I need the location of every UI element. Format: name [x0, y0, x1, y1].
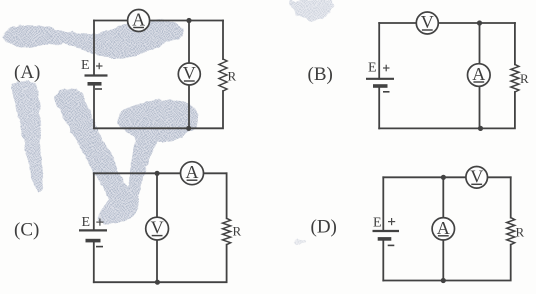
svg-text:V: V — [151, 218, 164, 238]
wire: D middle branch upper — [442, 177, 444, 217]
svg-text:R: R — [520, 71, 529, 86]
battery E (circuit B): short negative plate — [373, 84, 388, 88]
node: D bottom junction — [441, 278, 446, 283]
resistor R (circuit A) — [219, 59, 227, 91]
wire: A middle branch lower — [188, 85, 190, 128]
resistor R (circuit C) — [223, 218, 231, 244]
wire: B middle branch upper — [479, 23, 481, 64]
ammeter A (circuit C) — [181, 162, 204, 185]
ammeter A (circuit D) — [432, 218, 454, 240]
voltmeter V (circuit B) — [416, 12, 438, 34]
wire: A bottom-left segment — [94, 127, 189, 129]
wire: D right side (to resistor) — [510, 177, 512, 217]
wire: B top-right segment — [438, 22, 515, 24]
wire: B left side lower — [378, 86, 380, 128]
ammeter A (circuit B) — [468, 64, 491, 87]
background watermark smudges (decorative) — [2, 0, 333, 244]
svg-text:V: V — [183, 63, 196, 83]
label + (circuit B) — [383, 65, 390, 72]
svg-text:E: E — [368, 61, 377, 76]
voltmeter V (circuit C) — [146, 217, 169, 240]
svg-text:V: V — [421, 12, 434, 32]
label - (circuit C) — [96, 246, 103, 248]
wire: B bottom-left segment — [379, 127, 479, 129]
label - (circuit D) — [388, 244, 395, 246]
label + (circuit C) — [96, 219, 103, 226]
svg-text:(A): (A) — [14, 62, 40, 83]
wire: C right side (to resistor) — [226, 173, 228, 218]
wire: D top-right segment — [488, 176, 511, 178]
svg-text:R: R — [516, 225, 525, 240]
wire: A right side (to resistor) — [222, 21, 224, 60]
svg-text:E: E — [81, 58, 90, 73]
battery E (circuit D): long positive plate — [373, 230, 400, 232]
svg-text:(C): (C) — [14, 220, 39, 241]
svg-text:E: E — [373, 215, 382, 230]
wire: A top-right segment — [150, 20, 223, 22]
voltmeter V (circuit A) — [178, 63, 200, 85]
svg-text:R: R — [233, 224, 242, 239]
svg-text:A: A — [437, 218, 450, 238]
node: C top junction — [155, 171, 160, 176]
battery E (circuit C): long positive plate — [79, 229, 107, 231]
wire: D left side lower — [382, 239, 384, 281]
wire: A top-left segment — [94, 20, 128, 22]
battery E (circuit B): long positive plate — [366, 78, 394, 80]
wire: C middle branch upper — [156, 173, 158, 217]
wire: C left side upper — [93, 173, 95, 230]
wire: B right side (to resistor) — [514, 23, 516, 64]
svg-text:R: R — [228, 69, 237, 84]
wire: A left side lower — [93, 84, 95, 129]
node: A bottom junction — [186, 126, 191, 131]
node: B top junction — [477, 20, 482, 25]
label + (circuit A) — [96, 63, 103, 69]
wire: C top-left segment — [94, 172, 181, 174]
wire: D top-left segment — [383, 176, 466, 178]
svg-text:E: E — [82, 215, 91, 230]
label - (circuit B) — [383, 91, 390, 93]
label + (circuit D) — [388, 218, 395, 225]
node: A top junction — [186, 18, 191, 23]
resistor R (circuit B) — [511, 64, 519, 92]
battery E (circuit C): short negative plate — [86, 239, 101, 243]
svg-text:(B): (B) — [308, 64, 333, 85]
ammeter A (circuit A) — [128, 10, 150, 32]
wire: A left side upper — [93, 21, 95, 76]
label - (circuit A) — [95, 88, 102, 90]
svg-text:(D): (D) — [311, 216, 337, 237]
battery E (circuit A): long positive plate — [85, 74, 108, 76]
wire: B top-left segment — [379, 22, 416, 24]
node: C bottom junction — [155, 280, 160, 285]
battery E (circuit D): short negative plate — [378, 237, 392, 241]
svg-text:A: A — [186, 162, 199, 182]
wire: B middle branch lower — [479, 86, 481, 128]
svg-text:V: V — [470, 166, 483, 186]
wire: D bottom-left segment — [383, 280, 443, 282]
battery E (circuit A): short negative plate — [88, 82, 102, 86]
node: B bottom junction — [478, 126, 483, 131]
svg-text:A: A — [472, 64, 485, 84]
wire: C top-right segment — [204, 172, 227, 174]
wire: C left side lower — [93, 241, 95, 283]
svg-text:A: A — [132, 10, 145, 30]
wire: D right side (from resistor) — [443, 245, 510, 281]
resistor R (circuit D) — [507, 218, 515, 245]
wire: A middle branch upper — [188, 21, 190, 64]
wire: D middle branch lower — [442, 240, 444, 281]
voltmeter V (circuit D) — [466, 166, 488, 188]
wire: C bottom-left segment — [94, 281, 157, 283]
node: D top junction — [441, 175, 446, 180]
wire: B right side (from resistor) — [480, 92, 515, 128]
wire: C middle branch lower — [156, 240, 158, 282]
wire: B left side upper — [378, 23, 380, 79]
wire: D left side upper — [382, 177, 384, 231]
wire: C right side (from resistor) — [157, 245, 227, 283]
wire: A right side (from resistor) — [189, 91, 223, 128]
